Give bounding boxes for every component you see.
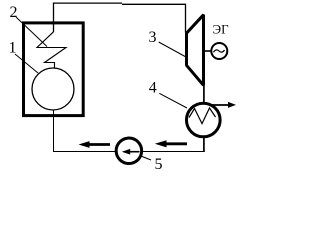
heater element 2 (zigzag) <box>37 32 66 68</box>
boiler drum circle 1 <box>32 68 74 110</box>
svg-text:4: 4 <box>149 80 157 97</box>
condensate pipe: condenser bottom, left to boiler bottom <box>203 136 205 152</box>
svg-text:3: 3 <box>149 29 157 46</box>
turbine 3 (trapezoid) <box>187 15 204 86</box>
svg-text:2: 2 <box>10 4 18 21</box>
generator shaft wire <box>205 50 212 52</box>
flow arrow (pump to boiler) <box>88 143 110 146</box>
pump 5 (circle) <box>116 138 142 164</box>
pump impeller arrow <box>128 151 140 153</box>
generator tilde (AC symbol) <box>214 50 225 52</box>
condenser cooling water outlet arrow <box>212 104 229 106</box>
flow arrow (condenser to pump) <box>164 142 187 145</box>
wire: pipe turbine exhaust to condenser <box>203 84 205 104</box>
generator circle ЭГ <box>211 43 227 59</box>
boiler vessel (unit 1-2) <box>24 23 84 116</box>
leader line for label 5 <box>140 156 151 161</box>
leader line for label 4 <box>159 93 187 108</box>
svg-text:ЭГ: ЭГ <box>213 22 230 37</box>
wire: steam pipe from boiler top to turbine inlet <box>54 3 123 32</box>
leader line for label 1 <box>15 54 38 73</box>
leader line for label 2 <box>16 17 47 47</box>
svg-text:5: 5 <box>155 156 163 173</box>
condenser 4 (circle) <box>187 103 221 137</box>
condenser cooling coil zigzag <box>189 108 216 124</box>
leader line for label 3 <box>159 42 186 57</box>
